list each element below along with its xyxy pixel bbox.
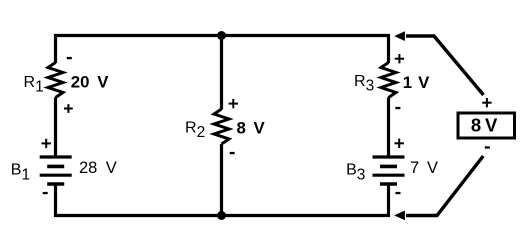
battery B3 — [373, 157, 405, 184]
polarity plus B3 top — [395, 139, 404, 148]
polarity plus box top — [482, 98, 491, 107]
svg-text:28 V: 28 V — [79, 159, 117, 177]
polarity minus R3 bottom — [395, 107, 400, 109]
wire left branch upper — [54, 34, 57, 63]
wire middle branch upper — [220, 36, 223, 110]
wire arrow top from box to top-right node — [394, 31, 483, 95]
wire arrow bottom from box to bottom-right node — [394, 156, 483, 220]
polarity minus R1 top — [67, 57, 72, 59]
polarity plus R1 bottom — [64, 104, 73, 113]
node bottom junction — [217, 211, 226, 220]
battery B1 — [40, 157, 72, 184]
wire left branch middle — [54, 98, 57, 156]
wire right branch middle — [387, 98, 390, 156]
wire left branch lower — [54, 184, 57, 217]
polarity plus R2 top — [229, 99, 238, 108]
svg-text:7 V: 7 V — [410, 159, 438, 177]
wire middle branch lower — [220, 144, 223, 216]
svg-text:8 V: 8 V — [471, 115, 498, 136]
polarity minus R2 bottom — [230, 152, 235, 154]
svg-text:8 V: 8 V — [237, 119, 266, 138]
wire bottom rail — [54, 214, 390, 217]
wire right branch lower — [387, 184, 390, 217]
node top junction — [217, 31, 226, 40]
resistor R1 — [48, 63, 63, 98]
polarity plus R3 top — [395, 54, 404, 63]
resistor R2 — [214, 109, 229, 144]
wire right branch upper — [387, 34, 390, 63]
polarity minus B1 bottom — [43, 192, 48, 194]
svg-text:1 V: 1 V — [403, 73, 430, 92]
polarity plus B1 top — [42, 139, 51, 148]
resistor R3 — [381, 63, 396, 98]
wire top rail — [54, 34, 390, 37]
polarity minus box bottom — [485, 146, 490, 148]
voltage source box 8 V — [458, 113, 515, 138]
polarity minus B3 bottom — [396, 192, 401, 194]
svg-text:20 V: 20 V — [71, 73, 109, 92]
